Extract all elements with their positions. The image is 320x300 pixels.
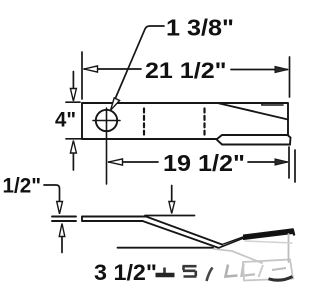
svg-text:3 1/2": 3 1/2"	[94, 260, 157, 285]
svg-text:19 1/2": 19 1/2"	[163, 150, 245, 176]
arrowhead 1/2 down	[57, 202, 63, 214]
dim 21 1/2 left extension line	[81, 52, 83, 99]
dim 4 top arrow line	[72, 72, 74, 90]
dim 1/2 extension ticks	[52, 217, 76, 222]
blade top view outline	[82, 103, 288, 139]
arrowhead 19 1/2 left	[109, 159, 123, 165]
drop dimension upper extension line	[145, 215, 195, 217]
svg-text:4": 4"	[55, 109, 76, 132]
drop dimension lower extension line	[118, 247, 214, 249]
arrowhead leader 1 3/8	[111, 98, 120, 110]
arrowhead 1/2 up	[59, 224, 65, 237]
arrowhead 21 1/2 right	[275, 66, 288, 72]
svg-text:21 1/2": 21 1/2"	[145, 58, 227, 83]
hole crosshair horizontal	[93, 120, 120, 122]
dim 4 bottom extension tick	[66, 138, 82, 140]
arrowhead 19 1/2 right	[275, 159, 288, 165]
leader 1/2	[44, 185, 60, 202]
dim 1/2 lower arrow line	[61, 237, 63, 253]
side view upturned tip dark bar	[244, 229, 294, 240]
hidden dashed line 1	[143, 109, 145, 135]
arrowhead 4 top (down)	[70, 89, 76, 102]
mounting hole	[96, 110, 117, 131]
dim 4 bottom arrow line	[72, 153, 74, 171]
dim 21 1/2 line	[84, 68, 288, 71]
blade top edge thickened fin segment	[262, 103, 283, 105]
side view tip underside line	[219, 238, 245, 248]
dim 19 1/2 right extension lines	[289, 147, 295, 182]
drop dimension arrow line	[171, 186, 173, 203]
svg-text:1/2": 1/2"	[3, 175, 42, 198]
side view tip dark bar end hook	[293, 230, 294, 235]
hidden dashed line 2	[203, 109, 205, 135]
scan ghost lines below side tip	[214, 234, 292, 263]
scan smudge marks after 3 1/2	[156, 260, 294, 282]
svg-text:1 3/8": 1 3/8"	[166, 15, 234, 41]
arrowhead 21 1/2 left	[84, 66, 98, 72]
side view tip upper thin line	[222, 237, 244, 245]
side view blade flat section	[82, 217, 146, 222]
hole centerline vertical (19 1/2 extension)	[106, 108, 108, 184]
blade rolled tip tab (top view)	[217, 135, 291, 145]
side view blade sloped section	[143, 217, 223, 249]
dim 19 1/2 line	[109, 161, 288, 163]
blade bevel edge	[218, 103, 289, 120]
leader 1 3/8	[116, 26, 165, 98]
arrowhead 4 bottom (up)	[70, 141, 76, 154]
arrowhead drop dim (down)	[169, 202, 175, 214]
dim 4 top extension tick	[66, 101, 80, 103]
dim 21 1/2 right extension line	[289, 57, 291, 97]
